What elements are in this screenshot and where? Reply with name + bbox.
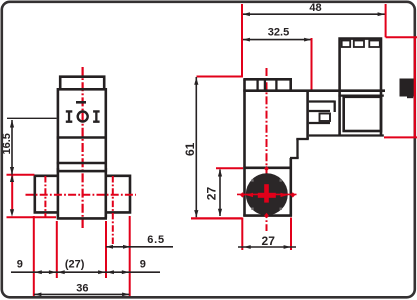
crosshair vertical with dim arrows <box>264 184 269 202</box>
gland bottom line <box>309 134 384 136</box>
pg small box <box>320 114 331 122</box>
arrows 9 right <box>107 270 114 274</box>
centerline vertical left view <box>81 67 83 228</box>
red horizontal right lower <box>384 136 417 138</box>
red ext 32.5 right <box>311 38 313 91</box>
body outline <box>58 89 106 171</box>
step 2 <box>290 157 299 159</box>
pin right <box>93 110 100 123</box>
pg thread line 2 <box>309 110 330 112</box>
red ext left vertical to 48/32.5 <box>197 4 243 77</box>
step 1 <box>296 138 309 140</box>
cells bottom long line <box>243 89 385 92</box>
pg thread line 1 <box>309 100 335 102</box>
gland top boxes <box>342 41 351 48</box>
left height dim extension top <box>7 117 57 119</box>
dim 48 line <box>243 13 386 15</box>
dim 61: red ext bottom <box>191 217 242 219</box>
svg-text:32.5: 32.5 <box>268 26 289 38</box>
hole centerline left <box>44 176 46 218</box>
pin left <box>66 110 73 123</box>
svg-text:27: 27 <box>205 187 219 201</box>
svg-text:27: 27 <box>262 234 276 248</box>
bottom ext line tab left <box>33 216 35 296</box>
gland upper block <box>340 39 381 136</box>
square top <box>243 167 292 170</box>
body lower sides <box>57 168 60 218</box>
dim line row y272 <box>11 271 160 273</box>
flange horizontal centerline <box>26 194 137 196</box>
body left edge <box>243 79 246 216</box>
cap outline <box>60 77 104 88</box>
body bottom <box>57 217 107 220</box>
disk rim dots <box>251 179 253 181</box>
gland line y95.5 <box>338 94 383 96</box>
svg-text:61: 61 <box>183 142 197 156</box>
left tab outline <box>35 176 59 213</box>
red ext right 48 <box>385 4 387 37</box>
bottom ext line body right <box>105 221 107 278</box>
disk <box>246 173 288 215</box>
square bottom <box>243 214 292 217</box>
left height dim ext red mid <box>7 174 35 176</box>
crosshair horizontal with dim arrows <box>237 193 297 195</box>
body internal line 1 <box>57 136 107 139</box>
svg-text:9: 9 <box>140 259 146 271</box>
left height dim line <box>11 120 13 175</box>
body top line <box>243 78 292 81</box>
nut rect <box>344 97 381 131</box>
dim 27 bottom line <box>238 246 296 248</box>
svg-text:9: 9 <box>17 259 23 271</box>
cell divider 2 <box>264 80 266 90</box>
step vertical <box>296 139 298 158</box>
hole centerline right <box>112 176 114 247</box>
pin center ring <box>78 112 88 122</box>
dim 27 vertical: red ext <box>216 167 243 169</box>
cell divider 1 <box>256 80 258 90</box>
gasket tick <box>76 101 86 104</box>
pg thread line 3 <box>309 122 330 124</box>
svg-text:36: 36 <box>76 282 88 294</box>
bottom ext line tab right <box>129 216 131 296</box>
dim 32.5 line <box>243 39 312 41</box>
left dim arrows mid <box>10 167 14 175</box>
cell divider 3 <box>275 80 277 90</box>
red horizontal top right <box>386 36 417 38</box>
body internal line 2 <box>57 162 107 165</box>
dim 36 line <box>34 293 130 295</box>
right tab outline <box>105 176 130 213</box>
body right edge upper <box>306 91 309 139</box>
dim 6.5 line <box>106 246 173 248</box>
arrows (27) <box>58 270 65 274</box>
square right edge <box>289 158 292 217</box>
red vertical right edge <box>414 37 416 137</box>
dim 27 vertical line <box>219 170 221 217</box>
svg-text:6.5: 6.5 <box>147 234 165 246</box>
svg-text:16.5: 16.5 <box>1 133 13 154</box>
dim 27 bottom: red exts <box>241 218 243 251</box>
cell divider 4 <box>289 80 292 90</box>
centerline right view vertical <box>266 68 268 231</box>
arrows 9 left <box>35 270 42 274</box>
pg vertical connector <box>334 101 336 113</box>
left height dim ext red bottom <box>7 216 57 218</box>
right edge label blob <box>400 79 414 97</box>
svg-text:48: 48 <box>309 2 321 14</box>
svg-text:(27): (27) <box>65 258 85 270</box>
dim 61 line <box>195 77 197 217</box>
bottom ext line body left <box>56 221 58 278</box>
